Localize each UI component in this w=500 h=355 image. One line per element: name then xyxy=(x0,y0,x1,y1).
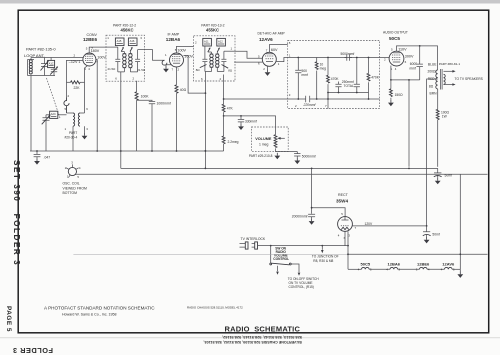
svg-text:1: 1 xyxy=(289,54,291,58)
svg-text:35W4: 35W4 xyxy=(336,199,348,204)
loop antenna L1 xyxy=(28,58,56,152)
wire antenna rail to 12BE6 grid xyxy=(31,57,83,59)
T2 bottom return wire xyxy=(204,81,206,168)
wire 470K junction down to det line xyxy=(327,93,329,109)
12BE6 screen wire down xyxy=(96,60,97,152)
12BA6 cathode resistor 40 ohm xyxy=(175,67,187,151)
svg-text:330mmf: 330mmf xyxy=(245,119,257,123)
IF transformer T1 dashed box xyxy=(106,23,145,81)
bus A (AVC return) xyxy=(30,150,224,152)
svg-text:5000mmf: 5000mmf xyxy=(341,52,355,56)
capacitor 1000mmf xyxy=(137,100,171,151)
T1 trimmer boxes xyxy=(115,38,124,46)
series capacitor 220mmf xyxy=(303,96,317,107)
12BA6 plate wire to IF2 xyxy=(177,46,194,53)
svg-text:12BA6: 12BA6 xyxy=(388,262,401,267)
IF amp tube 12BA6 V2 xyxy=(165,33,184,72)
12AV6 plate wire up and right xyxy=(269,45,287,53)
svg-text:47K: 47K xyxy=(227,106,234,110)
speaker arrows xyxy=(444,70,484,86)
svg-text:22K: 22K xyxy=(74,86,81,90)
TV interlock plug xyxy=(240,237,266,249)
svg-text:PART #80-81-1: PART #80-81-1 xyxy=(439,62,460,66)
svg-text:456KC: 456KC xyxy=(121,28,134,33)
resistor 2.2meg AVC xyxy=(222,116,238,151)
50C5 cathode wire and line xyxy=(391,66,420,80)
svg-text:BOTTOM: BOTTOM xyxy=(63,191,78,195)
svg-text:7: 7 xyxy=(325,104,327,108)
T1 secondary cap xyxy=(130,50,145,72)
T2 trimmer arrows xyxy=(208,48,210,52)
12BE6 plate wire to IF1 xyxy=(89,47,106,53)
T2 trimmer boxes xyxy=(203,38,212,46)
svg-text:CONTROL: CONTROL xyxy=(273,257,289,261)
svg-text:PAGE 5: PAGE 5 xyxy=(5,306,12,332)
T1 output wire to 12BA6 xyxy=(145,50,165,61)
svg-text:1: 1 xyxy=(278,62,280,66)
svg-text:100V: 100V xyxy=(177,49,186,53)
capacitor .047 xyxy=(34,150,51,164)
svg-text:100V: 100V xyxy=(184,54,193,58)
T1 secondary coil xyxy=(129,54,133,68)
svg-text:PART: PART xyxy=(69,131,77,135)
svg-text:7: 7 xyxy=(266,48,268,52)
svg-text:1: 1 xyxy=(65,127,67,131)
svg-text:DET-AVC-AF AMP: DET-AVC-AF AMP xyxy=(258,32,286,36)
page grey top bar xyxy=(0,0,500,4)
svg-text:6: 6 xyxy=(201,77,203,81)
svg-text:6: 6 xyxy=(115,77,117,81)
svg-text:SILVERTONE CHASSIS 528.51100,: SILVERTONE CHASSIS 528.51100, 528.51102,… xyxy=(204,340,302,344)
audio output tube 50C5 V4 xyxy=(383,30,408,70)
svg-text:12BE6: 12BE6 xyxy=(83,37,97,42)
svg-text:BRN: BRN xyxy=(430,91,438,95)
resistor 150 ohm cathode xyxy=(388,80,403,106)
svg-text:100K: 100K xyxy=(141,94,150,98)
svg-text:4: 4 xyxy=(338,233,340,237)
wire cathode line down to bus xyxy=(408,80,410,167)
svg-text:220mmf: 220mmf xyxy=(303,103,317,107)
svg-text:TOTAL: TOTAL xyxy=(344,84,354,88)
svg-text:SET 390 FOLDER 3: SET 390 FOLDER 3 xyxy=(12,160,21,266)
svg-text:20000mmf: 20000mmf xyxy=(292,214,308,218)
svg-text:OSC. COIL: OSC. COIL xyxy=(63,182,80,186)
svg-text:5: 5 xyxy=(391,47,393,51)
svg-text:RADIO SCHEMATIC: RADIO SCHEMATIC xyxy=(225,324,301,333)
svg-text:40Ω: 40Ω xyxy=(180,88,187,92)
svg-text:470K: 470K xyxy=(331,77,340,81)
svg-text:4: 4 xyxy=(88,67,90,71)
12AV6 cathode ground xyxy=(267,66,269,70)
svg-text:180V: 180V xyxy=(91,49,100,53)
svg-text:.047: .047 xyxy=(44,156,51,160)
svg-text:VIEWED FROM: VIEWED FROM xyxy=(63,186,87,190)
svg-text:110V: 110V xyxy=(398,48,407,52)
svg-text:8Ω: 8Ω xyxy=(228,69,233,73)
line to 35W4 plate xyxy=(312,208,346,217)
svg-text:8Ω: 8Ω xyxy=(429,84,434,88)
svg-text:1: 1 xyxy=(165,53,167,57)
svg-text:3: 3 xyxy=(140,36,142,40)
T1 trimmer arrows xyxy=(121,48,123,52)
osc grid hook xyxy=(64,98,69,114)
svg-text:2: 2 xyxy=(68,94,70,98)
svg-text:455KC: 455KC xyxy=(206,28,219,33)
bus C from osc coil xyxy=(77,173,488,175)
svg-text:3: 3 xyxy=(71,161,73,165)
svg-text:3: 3 xyxy=(348,233,350,237)
on-off switch on radio volume control xyxy=(270,246,300,276)
svg-text:2: 2 xyxy=(295,104,297,108)
svg-text:4: 4 xyxy=(395,67,397,71)
gang dashed link xyxy=(47,78,61,118)
page bottom faint rule xyxy=(0,337,500,338)
bottom junction line of det network xyxy=(328,92,369,94)
svg-text:528.51113, 528.51142, 528.5114: 528.51113, 528.51142, 528.51143, 528.511… xyxy=(222,335,302,340)
resistor 47K xyxy=(222,98,233,116)
svg-text:3: 3 xyxy=(289,93,291,97)
svg-text:5: 5 xyxy=(289,41,291,45)
arrow to junction R8 R30 xyxy=(312,246,339,263)
T1 primary coil xyxy=(123,54,127,68)
AC line xyxy=(262,245,348,247)
detector AF line to 50C5 grid xyxy=(276,58,389,62)
svg-text:5: 5 xyxy=(77,175,79,179)
svg-text:AUDIO OUTPUT: AUDIO OUTPUT xyxy=(383,30,408,34)
svg-text:12AV6: 12AV6 xyxy=(259,37,273,42)
svg-text:TO TV SPEAKERS: TO TV SPEAKERS xyxy=(455,77,484,81)
det-avc-af amp tube 12AV6 V3 xyxy=(258,32,286,71)
T1 primary cap xyxy=(106,47,124,72)
svg-text:12AV6: 12AV6 xyxy=(442,262,455,267)
heater return line xyxy=(73,254,348,256)
svg-text:2: 2 xyxy=(74,53,76,57)
output transformer T4 xyxy=(427,62,461,226)
AVC line xyxy=(224,116,276,135)
svg-text:2: 2 xyxy=(384,58,386,62)
svg-text:120V: 120V xyxy=(365,222,374,226)
12BE6 cathode wire down xyxy=(85,66,88,113)
svg-text:1W: 1W xyxy=(442,115,448,119)
svg-text:FOLDER 3: FOLDER 3 xyxy=(12,346,53,355)
resistor 100K screen xyxy=(135,81,149,151)
svg-text:7: 7 xyxy=(355,226,357,230)
T2 secondary cap xyxy=(217,51,235,71)
converter tube 12BE6 V1 xyxy=(74,33,99,71)
svg-text:A PHOTOFACT STANDARD NOTATION: A PHOTOFACT STANDARD NOTATION SCHEMATIC xyxy=(44,306,155,311)
svg-text:1: 1 xyxy=(67,175,69,179)
svg-text:CONTROL, (R15): CONTROL, (R15) xyxy=(289,285,314,289)
svg-text:8Ω: 8Ω xyxy=(196,68,201,72)
svg-text:50C5: 50C5 xyxy=(361,262,371,267)
IF transformer T2 dashed box xyxy=(194,23,235,81)
svg-text:1 meg: 1 meg xyxy=(259,143,269,147)
svg-text:PART #29-210-8: PART #29-210-8 xyxy=(249,154,273,158)
svg-text:6: 6 xyxy=(405,60,407,64)
svg-text:12BA6: 12BA6 xyxy=(166,37,181,42)
variable capacitor C1B (small) xyxy=(50,66,58,75)
svg-text:200Ω: 200Ω xyxy=(428,70,437,74)
svg-text:PART #82-135-0: PART #82-135-0 xyxy=(26,47,56,52)
resistor 100 ohm 1W xyxy=(436,109,449,167)
padder trimmer A2 box xyxy=(46,111,67,118)
svg-text:50mf: 50mf xyxy=(432,233,439,237)
svg-text:5000mmf: 5000mmf xyxy=(302,154,316,158)
resistor 470K det load xyxy=(327,57,340,99)
svg-text:A1C: A1C xyxy=(49,61,54,65)
variable capacitor C1A tuning xyxy=(41,58,49,76)
trimmer A1 box xyxy=(48,58,55,68)
svg-text:A16: A16 xyxy=(130,39,135,43)
detector diode line xyxy=(224,98,380,100)
svg-text:60V: 60V xyxy=(271,48,278,52)
electrolytic 50mf no.1 xyxy=(434,168,452,184)
T1 bottom return wire xyxy=(120,72,122,168)
rectifier tube 35W4 V5 xyxy=(336,193,357,240)
capacitor 20000mmf line bypass xyxy=(292,214,315,225)
svg-text:150Ω: 150Ω xyxy=(395,93,404,97)
volume control dashed box xyxy=(251,127,288,151)
capacitors 250mmf total xyxy=(335,57,360,93)
svg-text:300V: 300V xyxy=(405,55,414,59)
svg-text:RECT: RECT xyxy=(338,193,349,197)
right end vertical and ground xyxy=(459,174,461,269)
12BA6 grid hook xyxy=(162,60,167,65)
electrolytic 50mf no.2 xyxy=(423,226,440,244)
variable capacitor C1C osc tuning xyxy=(42,114,51,151)
svg-text:#20-30-4: #20-30-4 xyxy=(65,136,78,140)
12BA6 screen wire xyxy=(184,56,206,94)
B+ line from rectifier xyxy=(352,225,426,227)
svg-text:5: 5 xyxy=(86,46,88,50)
svg-text:A15: A15 xyxy=(117,39,122,43)
svg-text:2: 2 xyxy=(263,67,265,71)
svg-text:mmf: mmf xyxy=(302,73,308,77)
svg-text:3: 3 xyxy=(86,127,88,131)
svg-text:1: 1 xyxy=(107,36,109,40)
osc coil pictorial xyxy=(65,161,81,180)
svg-text:Howard W. Sams & Co., Inc. 195: Howard W. Sams & Co., Inc. 1958 xyxy=(62,313,117,317)
capacitor 330mmf AVC xyxy=(238,115,257,130)
svg-text:2: 2 xyxy=(195,41,197,45)
resistor 10 meg xyxy=(315,58,326,100)
heater string xyxy=(348,267,460,269)
svg-text:2: 2 xyxy=(220,77,222,81)
svg-text:12BE6: 12BE6 xyxy=(417,262,430,267)
svg-text:21.5Ω: 21.5Ω xyxy=(137,68,146,72)
ground osc coil xyxy=(82,133,88,139)
resistor 470K grid 50C5 xyxy=(367,57,380,99)
svg-text:BLUE: BLUE xyxy=(428,62,437,66)
svg-text:5: 5 xyxy=(341,212,343,216)
svg-text:TV INTERLOCK: TV INTERLOCK xyxy=(241,237,266,241)
T2 secondary bottom wire down xyxy=(223,75,225,100)
svg-text:470K: 470K xyxy=(371,75,380,79)
svg-text:meg: meg xyxy=(320,66,327,70)
T2 secondary coil xyxy=(216,54,219,68)
svg-text:2.2meg: 2.2meg xyxy=(228,140,239,144)
svg-text:A2C: A2C xyxy=(51,112,56,116)
svg-text:2: 2 xyxy=(178,67,180,71)
svg-text:7: 7 xyxy=(172,67,174,71)
12BE6 grid-1 wire to osc xyxy=(67,60,83,97)
T2 primary cap xyxy=(202,46,211,81)
svg-text:A11: A11 xyxy=(204,39,209,43)
svg-text:4: 4 xyxy=(79,166,81,170)
volume pot 1 meg xyxy=(274,135,297,152)
oscillator coil T3 xyxy=(65,107,89,151)
coupling capacitor 5000mmf xyxy=(341,52,355,61)
capacitor 5000mmf at volume xyxy=(294,152,316,165)
svg-text:2: 2 xyxy=(133,77,135,81)
capacitor 6000mmf plate-cathode xyxy=(410,46,423,80)
bus B (B-) xyxy=(121,167,438,169)
svg-text:A12: A12 xyxy=(218,39,223,43)
svg-text:VOLUME: VOLUME xyxy=(255,137,272,141)
35W4 heater feed wire down xyxy=(345,231,348,269)
capacitor 500mmf xyxy=(295,57,308,99)
resistor 22K osc grid xyxy=(67,81,85,90)
shield dashed box det section xyxy=(288,41,380,109)
ground volume pot xyxy=(274,153,280,159)
svg-text:21.5Ω: 21.5Ω xyxy=(108,67,117,71)
svg-text:50C5: 50C5 xyxy=(389,36,400,41)
T2 output wires to 12AV6 xyxy=(235,51,262,58)
12BA6 cathode ground arrow xyxy=(166,65,171,66)
svg-text:mmf: mmf xyxy=(410,66,416,70)
wire bus B to rectifier branch xyxy=(311,168,313,213)
svg-text:100V: 100V xyxy=(97,56,106,60)
svg-text:6: 6 xyxy=(86,107,88,111)
svg-text:1000mmf: 1000mmf xyxy=(157,101,171,105)
svg-text:RADIO CHASSIS 528.51110, MODEL: RADIO CHASSIS 528.51110, MODEL 4172 xyxy=(187,306,243,310)
svg-text:R8, R30 & M8: R8, R30 & M8 xyxy=(313,259,333,263)
50C5 plate line to output transformer xyxy=(397,46,438,70)
T2 primary coil xyxy=(210,54,213,68)
svg-text:1: 1 xyxy=(231,47,233,51)
